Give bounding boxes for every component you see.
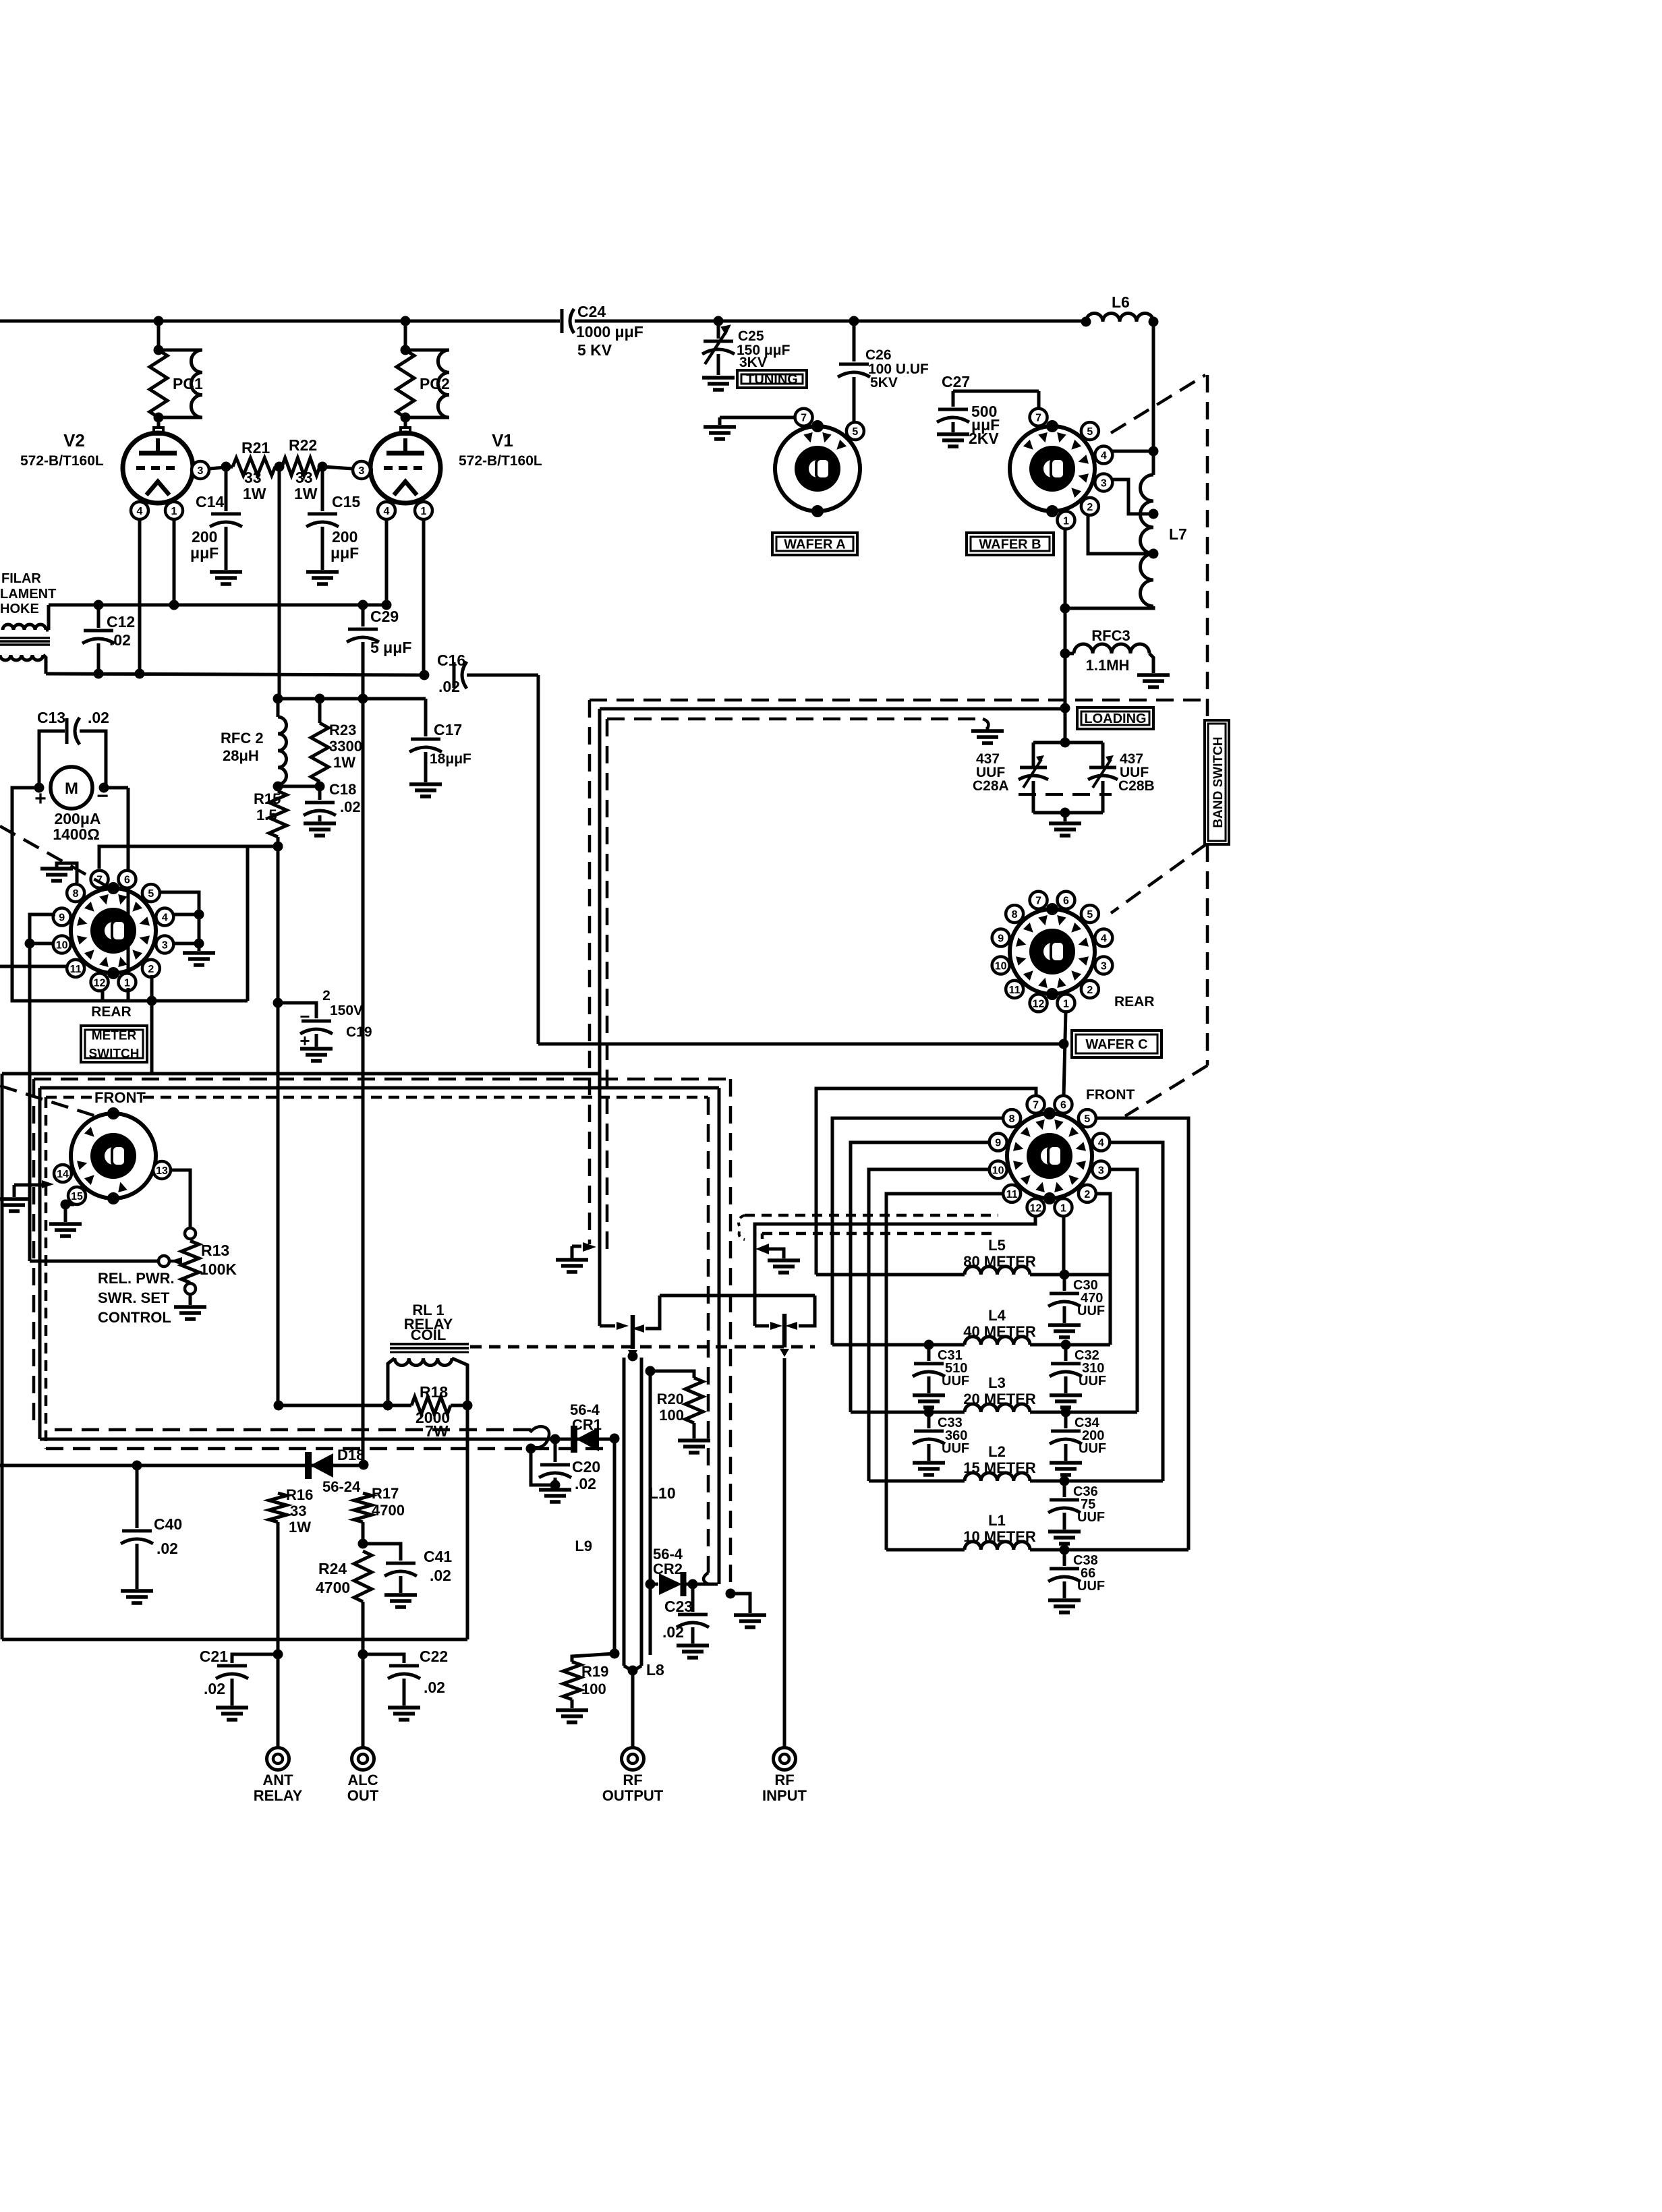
- svg-text:R24: R24: [318, 1560, 347, 1577]
- svg-text:5 KV: 5 KV: [577, 341, 612, 359]
- svg-text:14: 14: [57, 1169, 69, 1180]
- svg-text:UUF: UUF: [1079, 1441, 1106, 1456]
- svg-text:.02: .02: [430, 1567, 451, 1584]
- svg-text:33: 33: [295, 469, 313, 486]
- svg-text:40 METER: 40 METER: [963, 1323, 1036, 1340]
- svg-text:1W: 1W: [289, 1519, 311, 1536]
- svg-text:3: 3: [162, 939, 168, 951]
- svg-text:15: 15: [71, 1191, 83, 1202]
- svg-text:WAFER C: WAFER C: [1085, 1037, 1147, 1052]
- svg-text:8: 8: [1009, 1113, 1015, 1125]
- svg-text:1: 1: [124, 977, 130, 989]
- svg-text:11: 11: [70, 964, 82, 975]
- svg-text:L4: L4: [988, 1307, 1006, 1324]
- svg-text:33: 33: [290, 1503, 306, 1519]
- svg-text:3: 3: [1101, 477, 1107, 489]
- svg-text:1W: 1W: [243, 485, 266, 502]
- svg-text:200: 200: [192, 528, 217, 546]
- svg-text:12: 12: [1033, 998, 1045, 1010]
- svg-text:8: 8: [1012, 909, 1018, 921]
- svg-text:4: 4: [1101, 450, 1107, 462]
- svg-text:1: 1: [171, 506, 177, 517]
- svg-text:5: 5: [852, 426, 858, 438]
- svg-text:HOKE: HOKE: [0, 602, 39, 616]
- svg-text:11: 11: [1006, 1189, 1018, 1200]
- svg-text:R15: R15: [254, 790, 281, 807]
- svg-text:.02: .02: [575, 1475, 596, 1492]
- svg-text:7: 7: [1035, 896, 1041, 907]
- svg-text:R19: R19: [581, 1663, 608, 1680]
- svg-text:.02: .02: [109, 631, 131, 649]
- svg-text:1W: 1W: [333, 754, 355, 771]
- svg-text:METER: METER: [92, 1028, 137, 1043]
- svg-text:7: 7: [1035, 413, 1041, 424]
- svg-text:9: 9: [995, 1138, 1001, 1149]
- svg-text:UUF: UUF: [1077, 1510, 1105, 1525]
- svg-text:C25: C25: [738, 328, 764, 344]
- svg-text:INPUT: INPUT: [762, 1787, 807, 1804]
- svg-text:RELAY: RELAY: [254, 1787, 303, 1804]
- svg-text:R17: R17: [372, 1485, 399, 1502]
- svg-text:7: 7: [801, 413, 807, 424]
- svg-text:2KV: 2KV: [969, 430, 999, 447]
- svg-text:REL. PWR.: REL. PWR.: [98, 1270, 175, 1287]
- svg-text:10: 10: [56, 939, 68, 951]
- svg-text:REAR: REAR: [1114, 994, 1155, 1010]
- svg-text:UUF: UUF: [942, 1441, 969, 1456]
- svg-text:12: 12: [94, 977, 106, 989]
- svg-text:13: 13: [156, 1165, 168, 1177]
- svg-text:1.5: 1.5: [256, 807, 277, 823]
- svg-text:6: 6: [1063, 896, 1069, 907]
- svg-text:L6: L6: [1112, 293, 1130, 311]
- svg-text:5: 5: [1087, 909, 1093, 921]
- svg-text:ANT: ANT: [262, 1772, 293, 1788]
- svg-text:4700: 4700: [372, 1502, 405, 1519]
- svg-text:C18: C18: [329, 781, 356, 798]
- svg-text:ALC: ALC: [347, 1772, 378, 1788]
- svg-text:100K: 100K: [200, 1260, 237, 1278]
- svg-text:.02: .02: [156, 1540, 178, 1557]
- svg-text:5 μμF: 5 μμF: [370, 639, 411, 656]
- svg-text:7: 7: [1033, 1100, 1039, 1111]
- svg-text:C17: C17: [434, 721, 462, 738]
- svg-text:4700: 4700: [316, 1579, 350, 1596]
- svg-text:3KV: 3KV: [739, 355, 767, 370]
- svg-text:RFC3: RFC3: [1091, 627, 1130, 644]
- svg-text:R20: R20: [657, 1391, 684, 1407]
- svg-text:4: 4: [137, 506, 143, 517]
- svg-text:OUTPUT: OUTPUT: [602, 1787, 664, 1804]
- svg-text:C15: C15: [332, 493, 360, 511]
- svg-text:R13: R13: [201, 1242, 229, 1259]
- svg-text:L9: L9: [575, 1538, 592, 1554]
- svg-text:SWR. SET: SWR. SET: [98, 1289, 170, 1306]
- svg-text:28μH: 28μH: [223, 747, 259, 764]
- svg-text:R18: R18: [420, 1383, 448, 1401]
- svg-text:2: 2: [1087, 985, 1093, 996]
- svg-text:10: 10: [995, 960, 1007, 972]
- svg-text:7W: 7W: [425, 1422, 449, 1440]
- svg-text:6: 6: [1060, 1100, 1066, 1111]
- svg-text:3: 3: [1101, 960, 1107, 972]
- svg-text:UUF: UUF: [1077, 1304, 1105, 1318]
- svg-text:L3: L3: [988, 1374, 1006, 1391]
- svg-text:L8: L8: [646, 1661, 664, 1679]
- svg-text:L10: L10: [649, 1484, 676, 1502]
- svg-text:11: 11: [1009, 985, 1021, 996]
- svg-text:UUF: UUF: [1077, 1579, 1105, 1594]
- svg-text:4: 4: [162, 912, 168, 924]
- svg-text:2: 2: [322, 988, 331, 1003]
- svg-text:+: +: [34, 788, 47, 810]
- svg-text:FRONT: FRONT: [94, 1089, 146, 1106]
- svg-text:−: −: [299, 1006, 310, 1026]
- svg-text:OUT: OUT: [347, 1787, 379, 1804]
- svg-text:R23: R23: [329, 722, 356, 738]
- svg-text:WAFER A: WAFER A: [784, 537, 845, 552]
- svg-text:μμF: μμF: [190, 544, 219, 562]
- svg-text:C14: C14: [196, 493, 224, 511]
- svg-text:L2: L2: [988, 1443, 1006, 1460]
- svg-text:2: 2: [148, 964, 154, 975]
- svg-text:572-B/T160L: 572-B/T160L: [20, 453, 104, 469]
- svg-text:2: 2: [1087, 502, 1093, 513]
- svg-text:9: 9: [59, 912, 65, 924]
- svg-text:RF: RF: [774, 1772, 794, 1788]
- svg-text:C12: C12: [107, 613, 135, 631]
- svg-text:RF: RF: [623, 1772, 642, 1788]
- svg-text:.02: .02: [438, 678, 460, 695]
- svg-text:L5: L5: [988, 1237, 1006, 1254]
- svg-text:1: 1: [1060, 1202, 1066, 1214]
- svg-text:REAR: REAR: [91, 1004, 132, 1020]
- svg-text:CONTROL: CONTROL: [98, 1309, 171, 1326]
- svg-text:WAFER B: WAFER B: [979, 537, 1041, 552]
- svg-text:L1: L1: [988, 1512, 1006, 1529]
- svg-text:C16: C16: [437, 651, 465, 669]
- svg-text:C19: C19: [346, 1024, 372, 1040]
- svg-text:UUF: UUF: [942, 1374, 969, 1389]
- svg-text:V2: V2: [63, 430, 85, 450]
- svg-text:C29: C29: [370, 608, 399, 625]
- svg-text:3: 3: [1098, 1165, 1104, 1176]
- svg-text:C20: C20: [572, 1458, 600, 1476]
- svg-text:FILAR: FILAR: [1, 571, 41, 586]
- svg-text:PC2: PC2: [420, 375, 450, 392]
- svg-text:20 METER: 20 METER: [963, 1391, 1036, 1407]
- svg-text:5: 5: [1087, 426, 1093, 438]
- svg-text:10 METER: 10 METER: [963, 1528, 1036, 1545]
- svg-text:1.1MH: 1.1MH: [1086, 657, 1130, 674]
- svg-text:1W: 1W: [294, 485, 318, 502]
- svg-text:3: 3: [198, 465, 204, 477]
- svg-text:3: 3: [359, 465, 365, 477]
- svg-text:L7: L7: [1169, 525, 1187, 543]
- svg-text:FRONT: FRONT: [1086, 1087, 1135, 1103]
- svg-text:200: 200: [332, 528, 357, 546]
- svg-text:V1: V1: [492, 430, 513, 450]
- svg-text:PC1: PC1: [173, 375, 203, 392]
- svg-text:150V: 150V: [330, 1003, 363, 1018]
- svg-text:UUF: UUF: [1079, 1374, 1106, 1389]
- svg-text:C13: C13: [37, 709, 65, 726]
- svg-text:CR1: CR1: [572, 1416, 602, 1433]
- svg-text:4: 4: [384, 506, 390, 517]
- svg-text:C23: C23: [664, 1598, 693, 1615]
- svg-text:R21: R21: [241, 439, 270, 457]
- svg-text:RFC 2: RFC 2: [221, 730, 264, 747]
- svg-text:.02: .02: [340, 798, 361, 815]
- svg-text:LOADING: LOADING: [1084, 711, 1146, 726]
- svg-text:100: 100: [581, 1681, 606, 1697]
- svg-text:1400Ω: 1400Ω: [53, 825, 100, 843]
- svg-text:5: 5: [1084, 1113, 1090, 1125]
- svg-text:5KV: 5KV: [870, 375, 898, 390]
- svg-text:100: 100: [659, 1407, 684, 1424]
- svg-text:.02: .02: [662, 1623, 684, 1641]
- svg-text:C21: C21: [200, 1648, 228, 1665]
- svg-text:μμF: μμF: [331, 544, 359, 562]
- svg-text:1: 1: [421, 506, 427, 517]
- svg-text:C24: C24: [577, 303, 606, 320]
- svg-text:4: 4: [1098, 1138, 1104, 1149]
- svg-text:18μμF: 18μμF: [430, 751, 471, 767]
- svg-text:C22: C22: [420, 1648, 448, 1665]
- svg-text:SWITCH: SWITCH: [89, 1047, 140, 1061]
- svg-text:LAMENT: LAMENT: [0, 587, 56, 602]
- svg-text:10: 10: [992, 1165, 1004, 1176]
- svg-text:3300: 3300: [329, 738, 362, 755]
- svg-text:C40: C40: [154, 1515, 182, 1533]
- svg-text:TUNING: TUNING: [746, 372, 798, 387]
- svg-text:C27: C27: [942, 373, 970, 390]
- svg-text:M: M: [65, 780, 78, 798]
- svg-text:15 METER: 15 METER: [963, 1459, 1036, 1476]
- svg-text:4: 4: [1101, 933, 1107, 945]
- svg-text:12: 12: [1030, 1202, 1042, 1214]
- svg-text:80 METER: 80 METER: [963, 1253, 1036, 1270]
- svg-text:33: 33: [244, 469, 262, 486]
- svg-text:CR2: CR2: [653, 1561, 683, 1577]
- svg-text:6: 6: [124, 875, 130, 886]
- svg-text:1: 1: [1063, 515, 1069, 527]
- svg-text:C28A: C28A: [973, 778, 1009, 794]
- svg-text:C41: C41: [424, 1548, 452, 1565]
- svg-text:9: 9: [998, 933, 1004, 945]
- svg-text:8: 8: [73, 888, 79, 900]
- svg-text:.02: .02: [88, 709, 109, 726]
- svg-text:2: 2: [1084, 1189, 1090, 1200]
- svg-text:572-B/T160L: 572-B/T160L: [459, 453, 542, 469]
- svg-text:C26: C26: [865, 347, 892, 363]
- svg-text:COIL: COIL: [411, 1327, 447, 1343]
- svg-text:1: 1: [1063, 998, 1069, 1010]
- svg-text:1000 μμF: 1000 μμF: [576, 323, 643, 341]
- svg-text:D18: D18: [337, 1447, 364, 1463]
- svg-text:56-24: 56-24: [322, 1478, 361, 1495]
- svg-text:5: 5: [148, 888, 154, 900]
- svg-text:C28B: C28B: [1118, 778, 1155, 794]
- svg-text:R16: R16: [286, 1486, 313, 1503]
- svg-text:R22: R22: [289, 436, 317, 454]
- svg-text:.02: .02: [424, 1679, 445, 1696]
- svg-text:.02: .02: [204, 1680, 225, 1697]
- svg-text:BAND SWITCH: BAND SWITCH: [1211, 736, 1226, 827]
